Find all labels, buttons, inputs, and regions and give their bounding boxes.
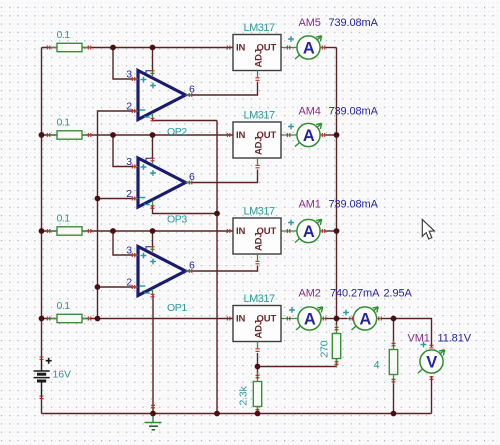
- op-amp OP2 green pin stubs: [132, 71, 192, 120]
- resistor 0.1 horizontal body: [49, 227, 92, 235]
- LM317 U3 body: [233, 218, 281, 254]
- ammeter AM2 pin marks: [323, 317, 326, 321]
- wire op-amp 1 output to LM317 ADJ: [186, 82, 258, 96]
- node ADJ divider: [255, 364, 261, 370]
- wire OP1 pin 2 stub: [98, 286, 139, 288]
- svg-text:A: A: [359, 310, 371, 328]
- wire load node to resistor R4: [393, 319, 395, 346]
- wire row2 sense line from bus to LM317 IN: [42, 134, 234, 136]
- battery V1 16V: [34, 358, 50, 398]
- LM317 U1 body: [233, 35, 281, 71]
- LM317 U4 pin marks: [227, 317, 289, 352]
- svg-text:11.81V: 11.81V: [438, 333, 472, 345]
- node reference bus OP1 pin2: [95, 284, 101, 290]
- wire row1 LM317 OUT to ammeter: [281, 47, 297, 49]
- LM317 U2 ADJ stub: [257, 158, 259, 165]
- svg-text:A: A: [303, 39, 315, 57]
- wire row1 tap to op-amp V+ pin: [152, 48, 154, 71]
- op-amp OP3 pin marks: [132, 158, 192, 208]
- svg-text:IN: IN: [236, 314, 246, 325]
- wire LM317 U4 ADJ to divider node: [257, 353, 259, 367]
- wire op-amp inverting input reference bus: [98, 111, 139, 319]
- svg-text:2: 2: [126, 188, 132, 200]
- wire row3 tap to op-amp pin 3: [113, 231, 138, 255]
- svg-text:0.1: 0.1: [57, 117, 71, 129]
- wire row4 LM317 OUT to ammeter AM2: [281, 318, 298, 320]
- wire R270 bottom stub: [336, 359, 338, 367]
- ground pin mark: [151, 405, 155, 408]
- wire R270 top stub from bus node: [336, 319, 338, 331]
- op-amp OP1 green pin stubs: [132, 247, 192, 296]
- wire resistor R4 bottom to ground rail: [393, 379, 395, 414]
- svg-text:2: 2: [126, 101, 132, 113]
- LM317 U1 pin marks: [227, 46, 289, 81]
- pin marks resistor 0.1: [47, 46, 91, 50]
- op-amp OP1 pin numbers: [126, 245, 195, 289]
- svg-text:4: 4: [374, 360, 380, 372]
- pin marks resistor 0.1: [47, 317, 91, 321]
- wire row2 tap to op-amp V+ pin: [152, 135, 154, 158]
- svg-text:2.95A: 2.95A: [384, 288, 413, 300]
- wire divider node to resistor R270 bottom: [258, 366, 337, 368]
- node negative bus OP3 V-: [214, 211, 220, 217]
- svg-text:739.08mA: 739.08mA: [329, 17, 379, 29]
- LM317 U3 pin marks: [227, 229, 289, 264]
- svg-text:6: 6: [189, 84, 195, 96]
- ammeter AM3 total current: [352, 307, 379, 330]
- wire row3 tap to op-amp V+ pin: [152, 231, 154, 247]
- node ground rail 2.3k: [255, 411, 261, 417]
- op-amp OP3 input/supply markers: [140, 158, 156, 204]
- ammeter AM2: [296, 307, 323, 330]
- wire OP3 V- to negative bus: [153, 207, 218, 214]
- svg-text:3: 3: [126, 156, 132, 168]
- wire OP3 pin 2 stub: [98, 198, 139, 200]
- svg-text:0.1: 0.1: [57, 213, 71, 225]
- battery pin marks: [40, 357, 44, 399]
- node row1 pin3 tap: [110, 45, 116, 51]
- wire OP2 V- to negative bus: [153, 119, 218, 121]
- resistor 0.1 horizontal body: [49, 131, 92, 139]
- node ground rail R4: [391, 411, 397, 417]
- svg-text:ADJ: ADJ: [254, 320, 265, 338]
- node row1 V+ tap: [150, 45, 156, 51]
- wire left supply bus vertical: [41, 48, 43, 359]
- svg-text:IN: IN: [236, 130, 246, 141]
- wire load node to voltmeter corner: [394, 319, 432, 348]
- resistor 270 body: [332, 325, 340, 368]
- LM317 U1 ADJ stub: [257, 71, 259, 78]
- node row2 V+ tap: [150, 132, 156, 138]
- resistor 4 pin marks: [392, 343, 396, 382]
- pin marks resistor 0.1: [47, 133, 91, 137]
- op-amp OP2 triangle: [138, 71, 186, 120]
- node row3 left bus: [39, 228, 45, 234]
- battery plus mark: [46, 358, 52, 364]
- wire op-amp 3 output to LM317 ADJ: [186, 266, 258, 272]
- wire bottom ground rail: [42, 413, 432, 415]
- wire row1 sense line from bus to LM317 IN: [42, 47, 234, 49]
- wire AM2 to output bus node: [321, 318, 337, 320]
- op-amp OP2 pin numbers: [126, 69, 195, 113]
- wire voltmeter bottom to ground rail: [431, 376, 433, 414]
- ground symbol: [145, 414, 162, 430]
- wire output bus vertical joining all regulator outputs: [336, 48, 338, 319]
- svg-text:IN: IN: [236, 43, 246, 54]
- svg-text:IN: IN: [236, 226, 246, 237]
- svg-text:LM317: LM317: [244, 110, 276, 122]
- wire row2 LM317 OUT to ammeter: [281, 134, 297, 136]
- svg-text:3: 3: [126, 69, 132, 81]
- node row2 pin3 tap: [110, 132, 116, 138]
- voltmeter VM1: [418, 350, 445, 373]
- svg-text:16V: 16V: [53, 369, 71, 381]
- wire divider node to R2.3k: [257, 367, 259, 380]
- wire row1 tap to op-amp pin 3: [113, 48, 138, 80]
- pin marks resistor 0.1: [47, 229, 91, 233]
- svg-text:OP2: OP2: [167, 126, 187, 138]
- node row2 left bus: [39, 132, 45, 138]
- resistor 2.3k pin marks: [256, 375, 260, 412]
- node row4 reference join: [95, 316, 101, 322]
- wire battery negative to bottom rail: [41, 398, 43, 414]
- op-amp OP1 pin marks: [132, 247, 192, 297]
- svg-text:0.1: 0.1: [57, 29, 71, 41]
- op-amp OP3 green pin stubs: [132, 158, 192, 207]
- ammeter AM5 pin marks: [322, 46, 325, 50]
- resistor 0.1 horizontal body: [49, 43, 92, 51]
- wire row2 tap to op-amp pin 3: [113, 135, 138, 167]
- wire row2 ammeter to output bus: [320, 134, 336, 136]
- svg-text:AM2: AM2: [299, 288, 321, 300]
- LM317 U2 body: [233, 122, 281, 158]
- ammeter AM4 plus mark: [288, 124, 294, 130]
- ammeter AM4 pin marks: [322, 133, 325, 137]
- node output bus row3: [334, 228, 340, 234]
- svg-text:AM5: AM5: [299, 17, 321, 29]
- ammeter AM3 plus mark: [343, 310, 349, 316]
- node load top: [391, 316, 397, 322]
- ammeter AM1 pin marks: [322, 229, 325, 233]
- svg-text:0.1: 0.1: [57, 300, 71, 312]
- svg-text:ADJ: ADJ: [254, 233, 265, 251]
- ammeter AM4: [295, 123, 322, 146]
- voltmeter VM1 pin marks: [430, 345, 434, 379]
- wire OP1 V- down to ground node: [152, 295, 154, 414]
- wire op-amp 2 output to LM317 ADJ: [186, 170, 258, 183]
- node row4 left bus: [39, 316, 45, 322]
- LM317 U2 pin marks: [227, 133, 289, 168]
- op-amp OP1 triangle: [138, 247, 186, 296]
- wire row1 ammeter to output bus: [320, 47, 336, 49]
- node ground rail ground symbol: [150, 411, 156, 417]
- svg-text:739.08mA: 739.08mA: [329, 106, 379, 118]
- ammeter AM1: [295, 219, 322, 242]
- node row3 V+ tap: [150, 228, 156, 234]
- svg-text:LM317: LM317: [244, 293, 276, 305]
- wire bus node to ammeter AM3: [337, 318, 354, 320]
- svg-text:OP1: OP1: [167, 302, 187, 314]
- svg-text:ADJ: ADJ: [254, 137, 265, 155]
- op-amp OP2 pin marks: [132, 71, 192, 121]
- svg-text:V: V: [426, 353, 437, 371]
- resistor 270 pin marks: [335, 327, 339, 364]
- wire R2.3k bottom to ground rail: [257, 406, 259, 414]
- node ground rail negative bus: [214, 411, 220, 417]
- svg-text:OP3: OP3: [167, 214, 187, 226]
- svg-text:6: 6: [189, 260, 195, 272]
- svg-text:AM4: AM4: [299, 106, 321, 118]
- resistor 2.3k body: [253, 373, 261, 416]
- svg-text:A: A: [303, 127, 315, 145]
- svg-text:270: 270: [318, 340, 330, 357]
- voltmeter VM1 plus mark: [421, 342, 427, 348]
- svg-text:A: A: [304, 310, 316, 328]
- svg-text:740.27mA: 740.27mA: [330, 288, 380, 300]
- wire row3 sense line from bus to LM317 IN: [42, 230, 234, 232]
- ammeter AM5 plus mark: [288, 36, 294, 42]
- LM317 U3 ADJ stub: [257, 254, 259, 261]
- op-amp OP3 triangle: [138, 158, 186, 207]
- ammeter AM1 plus mark: [288, 220, 294, 226]
- wire negative supply bus vertical: [216, 121, 218, 414]
- wire ammeter AM3 to load node: [377, 318, 394, 320]
- resistor 0.1 horizontal body: [49, 314, 92, 322]
- svg-text:739.08mA: 739.08mA: [329, 199, 379, 211]
- op-amp OP2 input/supply markers: [140, 71, 156, 117]
- ammeter AM2 plus mark: [289, 307, 295, 313]
- svg-text:6: 6: [189, 171, 195, 183]
- ammeter AM3 pin marks: [350, 317, 382, 321]
- wire row4 sense line from bus to LM317 IN: [42, 318, 234, 320]
- svg-text:AM1: AM1: [299, 199, 321, 211]
- node output bus row4: [334, 316, 340, 322]
- svg-text:A: A: [303, 223, 315, 241]
- svg-text:2: 2: [126, 277, 132, 289]
- resistor 4 body: [389, 341, 397, 384]
- node row3 pin3 tap: [110, 228, 116, 234]
- wire row3 LM317 OUT to ammeter: [281, 230, 297, 232]
- LM317 U4 body: [233, 306, 281, 342]
- wire row3 ammeter to output bus: [320, 230, 336, 232]
- svg-text:VM1: VM1: [408, 333, 430, 345]
- node reference bus OP3 pin2: [95, 196, 101, 202]
- svg-text:2.3k: 2.3k: [238, 386, 250, 406]
- svg-text:3: 3: [126, 245, 132, 257]
- LM317 U4 ADJ stub: [257, 342, 259, 349]
- mouse cursor: [422, 220, 434, 240]
- op-amp OP3 pin numbers: [126, 156, 195, 200]
- node output bus row2: [334, 132, 340, 138]
- ammeter AM5: [295, 36, 322, 59]
- svg-text:ADJ: ADJ: [254, 49, 265, 67]
- svg-text:LM317: LM317: [244, 22, 276, 34]
- op-amp OP1 input/supply markers: [140, 247, 156, 293]
- svg-text:LM317: LM317: [244, 206, 276, 218]
